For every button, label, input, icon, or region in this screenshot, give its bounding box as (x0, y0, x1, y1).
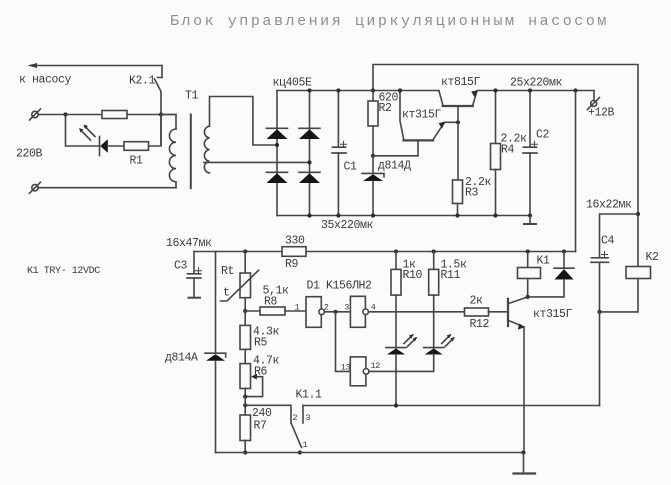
C2 plus sign (532, 141, 538, 147)
wire R8 row (245, 310, 260, 312)
node gate1 output (333, 310, 337, 314)
C3 plus sign (196, 268, 202, 274)
potentiometer R6 (240, 364, 251, 389)
capacitor C4 (592, 257, 609, 259)
capacitor C2 (529, 91, 531, 148)
diode bridge upper-left (267, 127, 288, 129)
wire: secondary bottom lead to bridge (204, 161, 310, 163)
svg-text:C1: C1 (344, 161, 358, 174)
svg-text:2: 2 (293, 413, 298, 423)
svg-text:д814Д: д814Д (378, 160, 411, 173)
кт315Г emitter with arrow (433, 122, 458, 140)
node K1.1 branch (243, 403, 247, 407)
logic gate D1.1 (306, 297, 321, 328)
logic gate D1.3 (350, 357, 366, 386)
svg-text:240: 240 (252, 407, 272, 420)
diode bridge lower-right (299, 171, 320, 173)
svg-text:R7: R7 (254, 420, 267, 433)
svg-text:Rt: Rt (221, 265, 234, 278)
node R6 bottom (243, 395, 247, 399)
bridge right vertical (309, 91, 311, 216)
wire: upper 220V line with fuse (38, 114, 102, 116)
svg-text:2: 2 (324, 303, 329, 313)
svg-text:1: 1 (295, 303, 300, 313)
svg-text:3: 3 (306, 413, 311, 423)
zener д814А (215, 252, 217, 354)
terminal +12В (591, 101, 597, 107)
svg-text:K1.1: K1.1 (296, 389, 323, 402)
svg-text:R1: R1 (130, 155, 144, 168)
node C2 top (528, 88, 532, 92)
node bridge AC right (307, 160, 311, 164)
K1.1 blade (292, 424, 302, 448)
кт315Г base bar (404, 139, 434, 141)
ground below C2 (529, 216, 531, 224)
collector slant (509, 297, 528, 304)
svg-text:C4: C4 (601, 235, 615, 248)
node emitter ground (521, 450, 525, 454)
switch K2.1 blade (155, 79, 162, 145)
transformer T1 secondary winding (204, 126, 209, 173)
svg-text:кт815Г: кт815Г (441, 76, 481, 89)
fuse (102, 111, 127, 119)
LED emission arrows (81, 127, 96, 141)
transformer T1 core (190, 115, 192, 189)
кт815Г emitter with arrow (473, 91, 477, 105)
svg-text:330: 330 (285, 235, 305, 248)
wire: secondary top lead to bridge (210, 97, 278, 146)
node bridge bottom right (307, 213, 311, 217)
кт815Г base lead (457, 106, 459, 180)
C3 ground bar (189, 297, 201, 299)
node C4 branch (636, 212, 640, 216)
svg-text:4: 4 (371, 303, 376, 313)
resistor R12 (465, 308, 489, 316)
svg-text:K1: K1 (537, 255, 551, 268)
resistor R4 (495, 91, 497, 144)
ground symbol (523, 453, 525, 474)
svg-text:35х220мк: 35х220мк (321, 219, 374, 232)
bridge left vertical (276, 91, 278, 216)
svg-text:R3: R3 (465, 187, 479, 200)
svg-text:R12: R12 (470, 318, 490, 331)
resistor R1 (124, 142, 149, 151)
svg-text:+12В: +12В (588, 107, 615, 120)
logic gate D1.2 (350, 296, 365, 327)
wire: C4 node down to switch line (599, 312, 601, 406)
wire: node to primary top (161, 115, 176, 130)
terminal 220V upper (32, 111, 38, 117)
svg-text:2к: 2к (470, 295, 484, 308)
node R7 bottom (243, 450, 247, 454)
LED2 arrows (442, 335, 454, 347)
кт315Г base lead (373, 140, 418, 155)
wire: +12V feed down to control section (575, 91, 577, 252)
C1 plus sign (341, 141, 347, 147)
wire: lower 220V line to transformer (38, 187, 176, 189)
svg-text:t: t (223, 287, 230, 300)
node кт815Г base (456, 120, 460, 124)
emitter slant with arrow (509, 321, 524, 328)
diode bridge upper-right (299, 127, 320, 129)
resistor R10 (394, 249, 398, 253)
resistor R3 (453, 180, 463, 204)
wire: top feedback rail (373, 65, 638, 267)
svg-text:12: 12 (371, 361, 381, 371)
node R4 bottom (493, 213, 497, 217)
transformer T1 primary winding (169, 129, 176, 188)
svg-text:R5: R5 (254, 337, 268, 350)
node Rt bottom / R8 (243, 309, 247, 313)
wire: LED branch down from left node (66, 115, 99, 147)
R6 wiper (245, 377, 262, 397)
node C2 bottom (528, 213, 532, 217)
LED power indicator triangle (100, 139, 108, 152)
wire: R1 up to K2.1 node (149, 115, 162, 147)
arrowhead к насосу (28, 63, 38, 68)
svg-text:кц405Е: кц405Е (273, 77, 313, 90)
svg-text:K1 TRY- 12VDC: K1 TRY- 12VDC (27, 266, 100, 277)
svg-text:кт315Г: кт315Г (533, 308, 573, 321)
node fuse-left junction (63, 112, 67, 116)
resistor R5 (244, 311, 246, 325)
relay K1 (526, 249, 530, 253)
svg-text:13: 13 (341, 363, 351, 373)
svg-text:K2.1: K2.1 (129, 75, 156, 88)
node R2 top (371, 88, 375, 92)
node +12V takeoff (573, 88, 577, 92)
resistor R9 on rail (282, 247, 306, 257)
svg-text:R11: R11 (441, 269, 461, 282)
svg-text:Блок управления циркуляционным: Блок управления циркуляционным насосом (170, 13, 609, 30)
svg-text:кт315Г: кт315Г (402, 109, 442, 122)
svg-text:3: 3 (344, 303, 349, 313)
svg-text:к насосу: к насосу (19, 74, 72, 87)
wire: emitter down to ground rail (523, 327, 525, 453)
wire gate3 output to LED2 (369, 370, 434, 372)
K1.1 contact 2 (245, 405, 291, 423)
node zener bottom (371, 213, 375, 217)
node K1 bottom / collector (526, 295, 530, 299)
svg-text:R9: R9 (285, 258, 299, 271)
flyback diode (562, 249, 566, 253)
svg-text:C2: C2 (536, 129, 550, 142)
svg-text:R10: R10 (403, 269, 423, 282)
wire: K1.1 line from C4 node (303, 405, 600, 407)
diode bridge lower-left (267, 171, 288, 173)
resistor R8 (260, 307, 285, 315)
svg-text:C3: C3 (174, 260, 188, 273)
svg-text:R4: R4 (501, 144, 515, 157)
LED1 (386, 347, 406, 349)
wire: +12V emitter rail (477, 91, 594, 101)
кт315Г collector (400, 91, 404, 140)
svg-text:R2: R2 (379, 102, 393, 115)
transistor кт315Г (driver, bottom) (507, 299, 509, 326)
zener д814Д (372, 156, 374, 173)
resistor R2 (372, 91, 374, 102)
node R2 bottom / zener top / base (371, 154, 375, 158)
node K2.1 junction (159, 112, 163, 116)
resistor R11 (432, 249, 436, 253)
svg-text:K2: K2 (646, 251, 660, 264)
K1.1 contact 3 (302, 406, 304, 424)
resistor R7 (244, 397, 246, 415)
terminal 220V lower (32, 185, 38, 191)
LED2 (424, 347, 444, 349)
node R4 top (493, 88, 497, 92)
wire gate1 out down to gate3 (336, 312, 351, 372)
node C1 bottom (336, 213, 340, 217)
bridge top rail (277, 90, 439, 92)
LED power indicator cathode bar (99, 137, 101, 156)
node bridge top right (307, 88, 311, 92)
node collector top (398, 88, 402, 92)
svg-text:R8: R8 (264, 296, 278, 309)
svg-text:16х22мк: 16х22мк (586, 199, 632, 212)
node C1 top (336, 88, 340, 92)
LED1 arrows (404, 335, 416, 347)
node blade on ground rail (298, 450, 302, 454)
relay K2 (626, 267, 651, 279)
svg-text:T1: T1 (185, 90, 199, 103)
bridge bottom rail (277, 215, 530, 217)
node LED1 bottom (394, 403, 398, 407)
svg-text:D1 K156ЛН2: D1 K156ЛН2 (307, 280, 373, 293)
wire: к насосу arrow line (31, 65, 162, 67)
svg-text:д814А: д814А (165, 352, 198, 365)
кт815Г collector (439, 91, 443, 105)
кт815Г base bar (443, 105, 473, 107)
svg-text:16х47мк: 16х47мк (166, 237, 212, 250)
C4 plus sign (602, 252, 608, 258)
svg-text:25х220мк: 25х220мк (510, 77, 563, 90)
svg-text:1: 1 (303, 440, 308, 450)
svg-text:220В: 220В (16, 148, 43, 161)
capacitor C3 (193, 252, 195, 274)
node C4 bottom (597, 310, 601, 314)
node R3 bottom (455, 213, 459, 217)
node bridge AC left (275, 143, 279, 147)
control rail +12V (194, 251, 576, 253)
switch K2.1 fixed contact (158, 66, 163, 78)
capacitor C1 (337, 91, 339, 148)
wire: branch to C4 (600, 214, 639, 258)
wire: K2 bottom to C4 node (600, 279, 639, 312)
wire: LED to R1 (108, 145, 124, 147)
Rt diagonal with foot (221, 270, 259, 301)
thermistor Rt (243, 249, 247, 253)
ground rail bottom (216, 452, 524, 454)
